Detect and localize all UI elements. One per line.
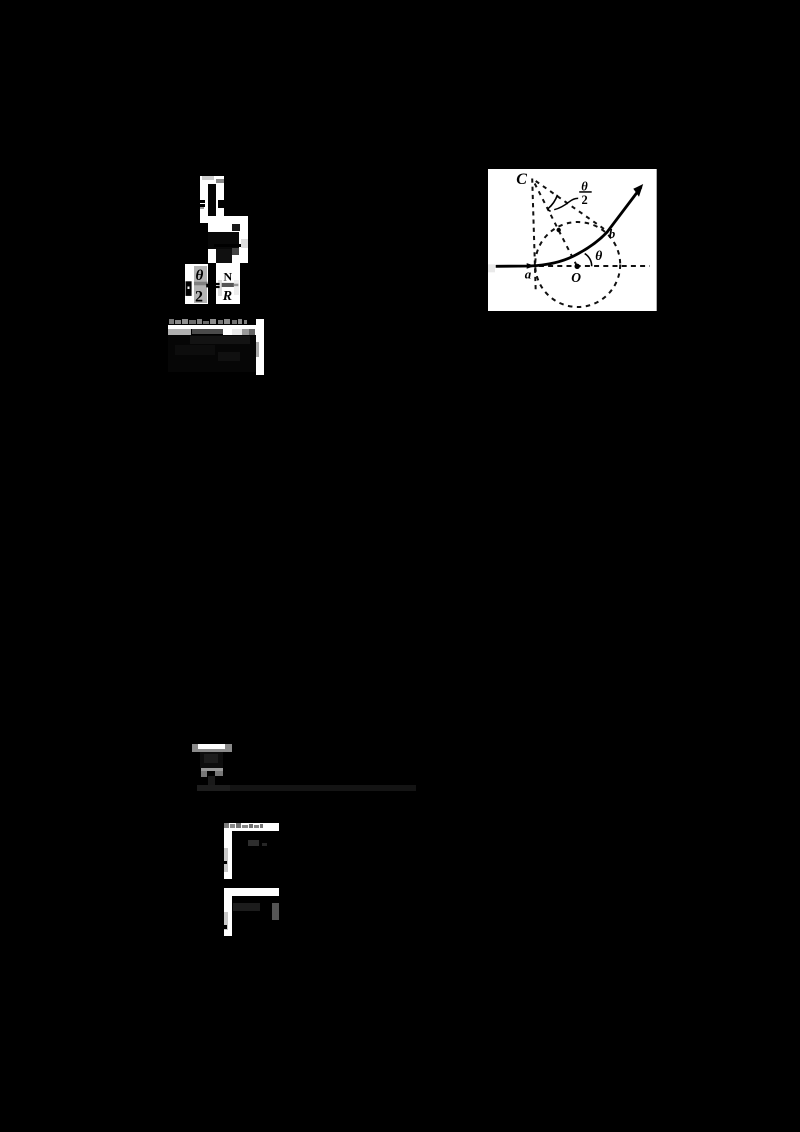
faint underline row <box>197 785 416 792</box>
fraction bar of theta/2 <box>579 191 591 192</box>
svg-text:θ: θ <box>195 268 203 284</box>
dot on line CO <box>557 227 561 231</box>
svg-text:2: 2 <box>195 288 203 304</box>
horizontal dashed line through O <box>530 264 650 266</box>
formula patch A (top, v with tall bar) <box>200 176 224 224</box>
formula patch G (Mg over 2) <box>192 744 232 752</box>
point O dot <box>575 263 580 268</box>
svg-text:R: R <box>222 289 232 304</box>
dashed circle centered at O <box>535 221 620 306</box>
svg-text:a: a <box>525 266 532 281</box>
gray notch at left edge <box>488 264 495 272</box>
trajectory curve with straight entry <box>496 187 641 266</box>
formula patch H (first boxed equation, L-shaped white) <box>224 823 280 831</box>
formula patch C (theta over 2) <box>185 264 208 304</box>
svg-text:b: b <box>609 225 616 240</box>
dashed line C to O <box>535 183 577 266</box>
fraction bar <box>222 283 234 287</box>
theta angle arc at O <box>585 253 592 266</box>
theta/2 angle arc near C <box>548 194 557 210</box>
svg-text:N: N <box>223 270 232 284</box>
arrowhead at end of trajectory <box>634 184 644 197</box>
svg-text:C: C <box>516 171 527 188</box>
dashed line C to b <box>536 181 608 231</box>
arrowhead at point a <box>527 263 535 269</box>
diagram patch F <box>488 169 657 312</box>
white background of figure <box>488 169 657 312</box>
fraction bar <box>194 281 208 285</box>
swash leader to theta/2 label <box>554 198 578 209</box>
svg-text:2: 2 <box>582 193 588 207</box>
equals sign between C and D <box>215 283 220 285</box>
ghost text row <box>169 319 174 324</box>
clipped glyph at left edge <box>185 281 191 296</box>
ghost text in band of patch H <box>224 823 229 828</box>
svg-text:θ: θ <box>595 247 602 262</box>
formula patch I (second boxed equation, L-shaped white) <box>224 888 280 896</box>
formula patch B (fraction mv^2/R block) <box>208 216 248 264</box>
svg-text:O: O <box>571 269 581 284</box>
vertical dashed line C to a <box>532 178 535 290</box>
formula patch D (N over R) <box>216 263 240 304</box>
